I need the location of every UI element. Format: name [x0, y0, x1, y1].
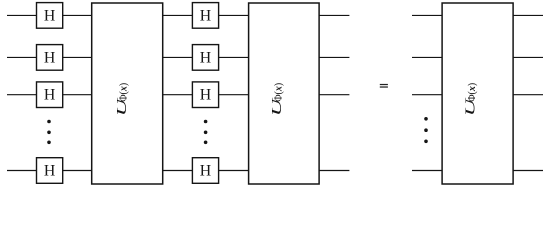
wire qn segment H1 to U1	[63, 170, 92, 172]
svg-text:H: H	[200, 49, 211, 66]
unitary U1 box	[92, 3, 163, 184]
wire q2 segment right of U3	[513, 94, 543, 96]
wire q0 segment H1 to U1	[63, 14, 92, 16]
svg-text:H: H	[44, 7, 55, 24]
wire q0 segment right of U3	[513, 14, 543, 16]
svg-text:H: H	[44, 87, 55, 104]
ellipsis dots column 2	[204, 120, 208, 144]
svg-text:H: H	[200, 87, 211, 104]
wire q1 segment H2 to U2	[219, 56, 249, 58]
wire qn segment U1 to H2	[163, 170, 193, 172]
ellipsis dots column 1	[47, 120, 51, 144]
unitary U2 label U_Phi(x)	[269, 83, 284, 116]
svg-text:H: H	[200, 7, 211, 24]
unitary U3 label U_Phi(x)	[463, 83, 478, 116]
gate H2 q0 box	[192, 3, 218, 29]
wire qn segment H2 to U2	[219, 170, 249, 172]
gate H2 q1 box	[192, 45, 218, 71]
svg-text:Φ(x): Φ(x)	[467, 83, 478, 102]
wire q0 segment right of U2	[319, 14, 349, 16]
svg-text:H: H	[44, 162, 55, 179]
wire q0 segment left of H column 1	[7, 14, 37, 16]
wire q0 segment left of U3	[412, 14, 442, 16]
unitary U3 box	[442, 3, 513, 184]
gate H1 q1 box	[37, 45, 63, 71]
gate H2 q2 box	[192, 82, 218, 108]
wire q1 segment right of U2	[319, 56, 349, 58]
wire q0 segment U1 to H2	[163, 14, 193, 16]
unitary U1 label U_Phi(x)	[115, 83, 130, 116]
unitary U2 box	[249, 3, 320, 184]
wire qn segment right of U2	[319, 170, 349, 172]
svg-text:H: H	[44, 49, 55, 66]
gate H1 q0 box	[37, 3, 63, 29]
gate H2 qn box	[192, 158, 218, 184]
wire q2 segment H1 to U1	[63, 94, 92, 96]
wire qn segment right of U3	[513, 170, 543, 172]
svg-text:H: H	[200, 162, 211, 179]
wire q1 segment H1 to U1	[63, 56, 92, 58]
ellipsis dots column 3	[424, 117, 428, 143]
gate H1 qn box	[37, 158, 63, 184]
wire q1 segment right of U3	[513, 56, 543, 58]
wire q1 segment left of H column 1	[7, 56, 37, 58]
wire q2 segment left of H column 1	[7, 94, 37, 96]
wire q2 segment H2 to U2	[219, 94, 249, 96]
wire q1 segment left of U3	[412, 56, 442, 58]
wire qn segment left of U3	[412, 170, 442, 172]
svg-text:Φ(x): Φ(x)	[119, 83, 130, 102]
wire qn segment left of H column 1	[7, 170, 37, 172]
equals sign	[380, 84, 388, 88]
wire q1 segment U1 to H2	[163, 56, 193, 58]
wire q0 segment H2 to U2	[219, 14, 249, 16]
gate H1 q2 box	[37, 82, 63, 108]
svg-text:Φ(x): Φ(x)	[273, 83, 284, 102]
wire q2 segment left of U3	[412, 94, 442, 96]
wire q2 segment right of U2	[319, 94, 349, 96]
wire q2 segment U1 to H2	[163, 94, 193, 96]
